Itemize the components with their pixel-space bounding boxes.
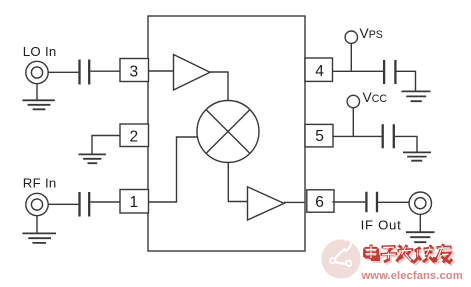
wire amplifier A2 output to pin6	[284, 201, 305, 203]
IC U1 outline	[148, 16, 305, 251]
svg-text:6: 6	[315, 194, 324, 211]
wire LO connector to capacitor C1	[48, 71, 78, 73]
pin 5 box	[305, 124, 333, 146]
wire pin4 to capacitor C3	[333, 70, 384, 72]
pin 2 box	[120, 124, 149, 147]
capacitor C2	[80, 192, 90, 217]
wire RF connector to capacitor C2	[48, 203, 78, 205]
wire pin6 to capacitor C5	[333, 201, 366, 203]
svg-text:IF Out: IF Out	[361, 218, 402, 233]
ground below LO connector	[36, 84, 38, 100]
ground below RF connector	[36, 216, 38, 233]
pin 3 box	[120, 59, 149, 82]
connector J2 RF In	[26, 193, 48, 215]
ground at pin2	[79, 154, 106, 163]
capacitor C1	[80, 60, 90, 85]
svg-text:RF In: RF In	[23, 176, 57, 191]
connector J1 LO In	[26, 61, 48, 83]
ground below IF Out connector	[419, 214, 421, 231]
pin 6 box	[307, 190, 334, 212]
capacitor C5	[366, 192, 377, 213]
watermark logo circle	[321, 239, 360, 279]
svg-text:5: 5	[315, 128, 324, 145]
mixer X1 cross	[206, 110, 250, 154]
svg-text:LO In: LO In	[23, 44, 57, 59]
wire mixer bottom to amplifier A2	[228, 163, 247, 202]
wire pin2 to ground	[92, 136, 120, 155]
svg-text:3: 3	[130, 64, 139, 81]
svg-text:VPS: VPS	[360, 26, 383, 41]
wire VCC terminal to pin5 line	[352, 108, 354, 137]
ground at VCC capacitor	[403, 152, 431, 160]
wire capacitor C1 to pin3	[90, 70, 120, 72]
wire pin3 to amplifier A1	[149, 70, 174, 72]
svg-text:4: 4	[315, 63, 324, 80]
wire capacitor C5 to IF Out connector	[378, 201, 409, 203]
pin 4 box	[305, 58, 333, 81]
svg-text:www.elecfans.com: www.elecfans.com	[361, 270, 463, 282]
pin 1 box	[120, 190, 149, 214]
wire capacitor C2 to pin1	[90, 201, 120, 203]
ground at VPS capacitor	[402, 91, 431, 101]
wire capacitor C4 to ground	[395, 136, 417, 152]
capacitor C3	[384, 60, 395, 84]
wire pin5 to capacitor C4	[333, 135, 382, 137]
capacitor C4	[383, 124, 394, 148]
watermark text 电子发烧友	[365, 244, 454, 265]
amplifier A1 (LO buffer)	[174, 55, 211, 91]
wire VPS terminal to pin4 line	[350, 44, 352, 72]
wire amplifier A1 output to mixer top	[210, 72, 228, 101]
mixer X1 circle	[197, 101, 259, 163]
wire capacitor C3 to ground	[397, 71, 416, 91]
svg-text:2: 2	[130, 129, 139, 146]
amplifier A2 (IF buffer)	[248, 187, 285, 220]
svg-text:VCC: VCC	[363, 90, 388, 105]
terminal VCC	[347, 95, 359, 107]
connector J3 IF Out	[409, 192, 431, 214]
terminal VPS	[345, 31, 357, 43]
wire pin1 to mixer left	[149, 137, 198, 202]
svg-text:1: 1	[130, 194, 139, 211]
